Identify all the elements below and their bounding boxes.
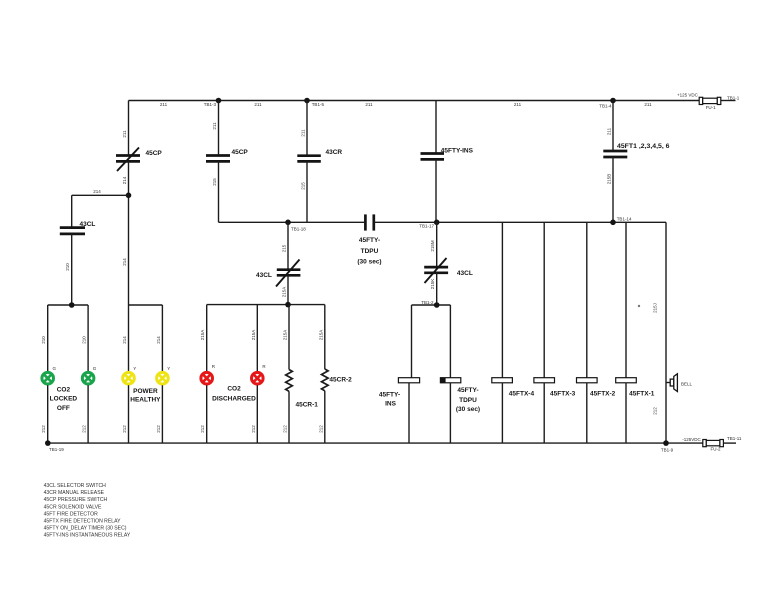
wire coil 45FTY-TDPU to bus [449, 383, 451, 443]
coil 45CR-2 (zigzag) [322, 369, 353, 391]
lamp R2 red [251, 364, 266, 384]
svg-text:212: 212 [318, 425, 323, 433]
svg-text:Y: Y [133, 366, 136, 371]
wire lamp Y1 to bus [128, 385, 130, 443]
wire branch B lower [71, 234, 73, 305]
svg-text:211: 211 [254, 102, 262, 107]
contact 43CL NO (left) [60, 221, 96, 234]
wire coil 45FTX-2 to bus [586, 383, 588, 443]
svg-text:45FTY-: 45FTY- [379, 392, 400, 399]
wire lamp G2 drop [87, 305, 89, 371]
svg-text:43CL: 43CL [256, 272, 272, 279]
wire coil 45FTX-2 drop [586, 222, 588, 377]
coil 45FTY-INS (relay box) [379, 378, 420, 408]
wire branch G lower [287, 275, 289, 304]
label POWER HEALTHY [130, 388, 161, 403]
svg-text:215A: 215A [200, 330, 205, 341]
stray mark [638, 305, 640, 307]
svg-text:FU-2: FU-2 [711, 447, 721, 452]
wire branch H upper (x=436.7) [436, 222, 438, 267]
svg-text:215M: 215M [430, 240, 435, 252]
svg-text:TDPU: TDPU [361, 248, 379, 255]
contact 45CP NO [206, 149, 248, 161]
svg-text:45CR SOLENOID VALVE: 45CR SOLENOID VALVE [44, 504, 102, 510]
label CO2 LOCKED OFF [50, 386, 78, 412]
coil 45CR-1 (zigzag) [286, 370, 319, 409]
svg-text:214: 214 [122, 258, 127, 266]
wire top bus after fuse [721, 100, 736, 102]
bell (alarm speaker) [666, 374, 693, 392]
svg-text:INS: INS [385, 401, 397, 408]
contact 43CR NO (manual release) [297, 149, 342, 162]
wire coil 45FTY-INS drop [411, 305, 413, 378]
svg-text:45FTY ON_DELAY TIMER (30 SEC): 45FTY ON_DELAY TIMER (30 SEC) [44, 526, 127, 532]
node TB1-2 [434, 302, 440, 308]
svg-text:45FT1 ,2,3,4,5, 6: 45FT1 ,2,3,4,5, 6 [617, 143, 670, 150]
wire lamp Y2 drop [161, 305, 163, 371]
svg-text:+125 VDC: +125 VDC [677, 92, 699, 97]
wire coil 45FTX-1 to bus [625, 383, 627, 443]
node junction block A [69, 302, 75, 308]
node junction 214 [126, 193, 132, 199]
svg-text:TDPU: TDPU [459, 397, 477, 404]
wire coil 45FTX-3 drop [543, 222, 545, 377]
node TB1-5 [304, 98, 310, 104]
node TB1-4 [610, 98, 616, 104]
wire branch E (x=436) upper [435, 101, 437, 154]
svg-text:-125VDC: -125VDC [682, 437, 701, 442]
lamp Y1 yellow [123, 366, 137, 384]
node junction block C [285, 302, 291, 308]
svg-text:TB1-3: TB1-3 [204, 102, 217, 107]
wire branch E lower [435, 159, 437, 222]
wire lamp block C rail [207, 304, 325, 306]
lamp Y2 yellow [157, 366, 171, 384]
svg-text:OFF: OFF [57, 405, 70, 412]
wire lamp R1 to bus [206, 385, 208, 443]
wire lamp G1 drop [47, 305, 49, 371]
svg-text:TB1-14: TB1-14 [617, 216, 632, 221]
wire lamp G1 to bus [47, 385, 49, 443]
wire bottom bus after fuse [723, 442, 736, 444]
svg-text:215A: 215A [318, 330, 323, 341]
wire lamp R2 to bus [256, 385, 258, 443]
contact 45FTY-INS NO [421, 147, 474, 159]
svg-text:POWER: POWER [133, 388, 158, 395]
svg-text:210: 210 [41, 336, 46, 344]
svg-text:TB1-9: TB1-9 [661, 447, 674, 452]
wire coil 45FTX-4 to bus [501, 383, 503, 443]
svg-text:45FTY-: 45FTY- [359, 237, 380, 244]
contact 43CL NC (middle, slashed) [256, 260, 300, 287]
coil 45FTX-4 (relay box) [492, 378, 535, 398]
wire branch C (x=218.5) upper [218, 101, 220, 156]
svg-text:212: 212 [122, 425, 127, 433]
fuse FU-1 [699, 97, 721, 110]
contact 45CP NC (pressure switch, slashed) [116, 148, 162, 172]
contact 43CL NC (right, slashed) [424, 258, 473, 283]
wire right riser to bell [665, 222, 667, 443]
wire lamp block A rail [48, 304, 88, 306]
wire lamp G2 to bus [87, 385, 89, 443]
svg-text:214: 214 [122, 336, 127, 344]
lamp R1 red [201, 364, 216, 384]
wire branch F (x=613) upper [612, 101, 614, 151]
svg-text:45CR-2: 45CR-2 [329, 377, 352, 384]
svg-text:45FTX-4: 45FTX-4 [509, 391, 535, 398]
svg-text:43CR MANUAL RELEASE: 43CR MANUAL RELEASE [44, 490, 105, 496]
svg-text:BELL: BELL [681, 382, 693, 387]
wire lamp Y1 drop [128, 305, 130, 371]
wire coil 45CR-2 to bus [324, 391, 326, 443]
wire coil 45CR-2 drop [324, 305, 326, 369]
contact 45FT1-6 NO (fire detectors) [603, 143, 670, 157]
svg-text:215: 215 [212, 178, 217, 186]
coil 45FTX-3 (relay box) [534, 378, 576, 398]
svg-text:43CL SELECTOR SWITCH: 43CL SELECTOR SWITCH [44, 483, 107, 489]
svg-text:212: 212 [283, 425, 288, 433]
svg-text:FU-1: FU-1 [706, 105, 716, 110]
wire branch G upper (x=288) [287, 222, 289, 269]
node TB1-14 [610, 220, 616, 226]
svg-text:G: G [93, 366, 97, 371]
wire coil 45FTX-4 drop [501, 222, 503, 377]
svg-text:215J: 215J [653, 303, 658, 313]
svg-text:215: 215 [282, 244, 287, 252]
svg-text:215A: 215A [251, 330, 256, 341]
svg-text:211: 211 [644, 102, 652, 107]
svg-text:G: G [53, 366, 57, 371]
svg-text:215A: 215A [282, 287, 287, 298]
svg-text:TB1-2: TB1-2 [421, 300, 434, 305]
svg-text:45FT FIRE DETECTOR: 45FT FIRE DETECTOR [44, 511, 98, 517]
svg-text:212: 212 [200, 425, 205, 433]
lamp G2 green [82, 366, 97, 384]
svg-text:211: 211 [122, 130, 127, 138]
wire 214 horizontal [72, 194, 129, 196]
svg-text:43CL: 43CL [457, 270, 473, 277]
wire lamp Y2 to bus [161, 385, 163, 443]
node TB1-19 [45, 440, 51, 446]
wire branch A upper (x=128.5) [128, 101, 130, 156]
svg-text:TB1-19: TB1-19 [49, 447, 64, 452]
coil 45FTX-2 (relay box) [577, 378, 616, 398]
svg-text:211: 211 [160, 102, 168, 107]
svg-text:43CL: 43CL [80, 221, 96, 228]
svg-text:45FTX-3: 45FTX-3 [550, 391, 576, 398]
svg-text:215B: 215B [607, 174, 612, 185]
svg-text:45CR-1: 45CR-1 [296, 402, 319, 409]
label CO2 DISCHARGED [212, 386, 256, 403]
svg-text:TB1-17: TB1-17 [419, 223, 434, 228]
wire lamp block B rail [129, 304, 163, 306]
wire coil 45FTY-TDPU drop [449, 305, 451, 378]
node TB1-9 [663, 440, 669, 446]
svg-text:LOCKED: LOCKED [50, 396, 78, 403]
svg-text:45FTY-INS INSTANTANEOUS RELAY: 45FTY-INS INSTANTANEOUS RELAY [44, 533, 131, 539]
coil 45FTX-1 (relay box) [616, 378, 655, 398]
svg-text:45CP: 45CP [146, 150, 163, 157]
svg-text:211: 211 [301, 129, 306, 137]
svg-text:214: 214 [93, 189, 101, 194]
node TB1-17 [434, 220, 440, 226]
svg-text:212: 212 [653, 407, 658, 415]
wire second bus right [374, 221, 666, 223]
wire branch H lower [436, 273, 438, 305]
svg-text:DISCHARGED: DISCHARGED [212, 396, 256, 403]
wire coil block D rail [412, 304, 451, 306]
svg-text:HEALTHY: HEALTHY [130, 397, 161, 404]
wire second bus left [219, 221, 366, 223]
wire coil 45FTX-3 to bus [543, 383, 545, 443]
svg-text:TB1-1: TB1-1 [727, 95, 740, 100]
svg-text:211: 211 [212, 122, 217, 130]
svg-text:CO2: CO2 [57, 386, 71, 393]
svg-text:Y: Y [167, 366, 170, 371]
svg-text:210: 210 [82, 336, 87, 344]
wire coil 45FTX-1 drop [625, 222, 627, 377]
svg-text:212: 212 [251, 425, 256, 433]
lamp G1 green [42, 366, 57, 384]
svg-text:TB1-5: TB1-5 [312, 102, 325, 107]
svg-text:TB1-11: TB1-11 [727, 436, 742, 441]
svg-text:211: 211 [514, 102, 522, 107]
svg-text:45FTY-INS: 45FTY-INS [441, 147, 474, 154]
svg-text:212: 212 [82, 425, 87, 433]
svg-text:43CR: 43CR [326, 149, 343, 156]
legend notes [44, 483, 131, 539]
wire bottom bus 212 [48, 442, 703, 444]
svg-text:215A: 215A [283, 330, 288, 341]
svg-text:212: 212 [41, 425, 46, 433]
svg-text:TB1-18: TB1-18 [291, 226, 306, 231]
svg-text:211: 211 [607, 127, 612, 135]
node TB1-3 [216, 98, 222, 104]
wire branch B upper (x=71.7) [71, 195, 73, 227]
svg-text:45FTX-2: 45FTX-2 [590, 391, 616, 398]
wire branch F lower [612, 157, 614, 222]
wire branch D lower [306, 161, 308, 222]
svg-text:215K: 215K [430, 279, 435, 290]
wire coil 45CR-1 to bus [288, 391, 290, 443]
svg-text:215: 215 [301, 182, 306, 190]
wire lamp R1 drop [206, 305, 208, 372]
svg-text:45CP: 45CP [232, 149, 249, 156]
wire lamp R2 drop [256, 305, 258, 372]
svg-text:45FTY-: 45FTY- [457, 387, 478, 394]
contact 45FTY-TDPU NO (horizontal) [357, 214, 381, 265]
svg-text:214: 214 [122, 176, 127, 184]
svg-text:45FTX-1: 45FTX-1 [629, 391, 655, 398]
wire coil 45CR-1 drop [288, 305, 290, 370]
wire branch D (x=307) upper [306, 101, 308, 156]
svg-text:211: 211 [365, 102, 373, 107]
svg-text:45FTX FIRE DETECTION RELAY: 45FTX FIRE DETECTION RELAY [44, 519, 121, 525]
svg-text:214: 214 [156, 336, 161, 344]
svg-text:(30 sec): (30 sec) [357, 259, 381, 266]
wire branch A lower [128, 161, 130, 305]
svg-text:CO2: CO2 [227, 386, 241, 393]
svg-text:210: 210 [65, 263, 70, 271]
svg-text:45CP PRESSURE SWITCH: 45CP PRESSURE SWITCH [44, 497, 108, 503]
svg-text:TB1-4: TB1-4 [599, 103, 612, 108]
svg-text:212: 212 [156, 425, 161, 433]
wire branch C lower [218, 161, 220, 222]
node TB1-18 [285, 220, 291, 226]
wire top bus 211 [129, 100, 701, 102]
fuse FU-2 [703, 440, 724, 452]
coil 45FTY-TDPU (relay box) [440, 378, 480, 413]
svg-text:(30 sec): (30 sec) [456, 406, 480, 413]
wire coil 45FTY-INS to bus [408, 383, 410, 443]
